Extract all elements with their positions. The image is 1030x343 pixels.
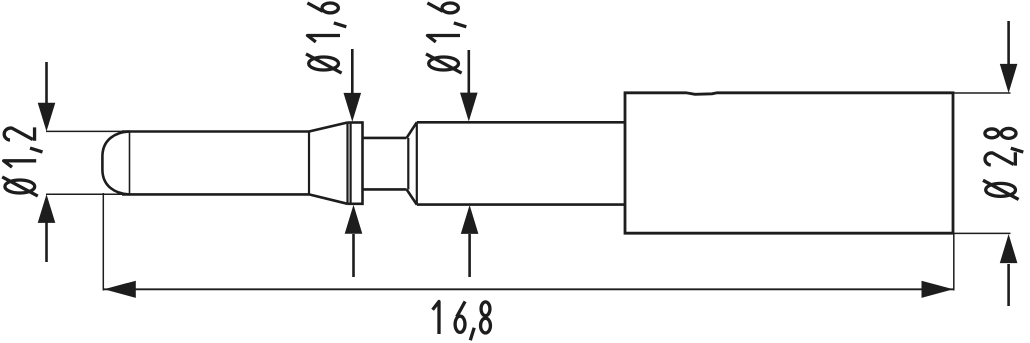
dim Ø1,2 bottom extension line: [46, 193, 130, 195]
dim Ø1,2 upper arrow stem: [45, 62, 48, 106]
taper bottom edge: [309, 194, 348, 203]
chamfer top edge: [407, 122, 417, 138]
dim 16,8 right extension line: [953, 234, 955, 291]
dim Ø1,2 upper arrowhead: [38, 103, 56, 132]
neck top edge: [363, 137, 407, 140]
collar left junction line: [346, 123, 348, 204]
cylinder top edge: [417, 121, 626, 124]
dim Ø2,8 lower arrowhead: [1000, 234, 1018, 263]
dim Ø1,6 first upper arrow stem: [351, 49, 354, 94]
dim Ø1,6 second lower arrow stem: [468, 234, 471, 277]
dim 16,8 right arrowhead: [922, 281, 954, 298]
dim 16,8 left extension line: [102, 193, 104, 291]
dim 16,8 left arrowhead: [104, 281, 136, 298]
dim Ø2,8 upper arrowhead: [1000, 64, 1018, 93]
dim Ø1,6 second lower arrowhead: [461, 205, 479, 234]
dim Ø1,2 lower arrow stem: [45, 220, 48, 262]
dim Ø2,8 lower arrow stem: [1007, 264, 1010, 306]
dim Ø1,2 lower arrowhead: [38, 194, 56, 223]
cylinder bottom edge: [417, 203, 626, 206]
body rectangle: [625, 93, 953, 233]
dim Ø2,8 bottom extension line: [953, 232, 1011, 234]
neck end junction line: [407, 138, 409, 190]
taper top edge: [309, 123, 348, 132]
shaft bottom edge: [122, 193, 309, 196]
label Ø1,2: [2, 127, 42, 196]
taper start junction line: [308, 132, 310, 195]
shaft top edge: [122, 130, 309, 133]
collar inner line: [350, 123, 352, 204]
dim Ø1,6 first lower arrow stem: [352, 234, 355, 277]
dim Ø1,6 second upper arrow stem: [467, 50, 470, 94]
chamfer junction line: [416, 122, 418, 204]
label Ø1,6 second: [426, 3, 466, 73]
dim Ø1,6 second upper arrowhead: [460, 93, 478, 122]
tip cap junction line: [129, 132, 131, 194]
collar bottom edge: [348, 203, 363, 206]
dim Ø1,6 first lower arrowhead: [345, 205, 363, 234]
label Ø2,8: [983, 128, 1023, 199]
label Ø1,6 first: [306, 3, 346, 73]
dim Ø2,8 upper arrow stem: [1007, 21, 1010, 64]
collar top edge: [348, 121, 363, 124]
dim Ø1,6 first upper arrowhead: [344, 93, 362, 122]
chamfer bottom edge: [407, 189, 417, 204]
dim Ø1,2 top extension line: [46, 130, 130, 132]
collar right edge: [361, 121, 364, 205]
dim Ø2,8 top extension line: [953, 92, 1011, 94]
dim 16,8 dimension line: [104, 288, 953, 290]
neck bottom edge: [363, 188, 407, 191]
label 16,8: [433, 301, 491, 340]
pin tip rounded cap: [102, 132, 129, 195]
